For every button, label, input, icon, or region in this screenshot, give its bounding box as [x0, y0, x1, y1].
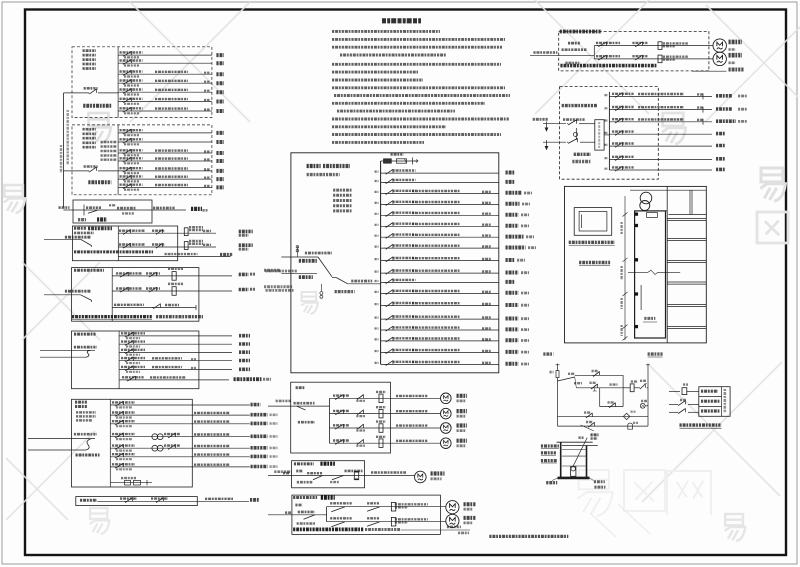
AT3 row 3 wire out and label: [199, 351, 232, 353]
pump panel feeder row 2: [594, 58, 713, 60]
A24 sewage motor 1: [446, 501, 459, 514]
panel A23 id: [296, 470, 303, 473]
panel AL2 incoming breaker: [84, 165, 98, 168]
AT2 row 2 outgoing wire: [199, 290, 232, 292]
B3AL feeder row 8: [381, 247, 499, 249]
panel AL3 parameters: [76, 411, 96, 414]
panel AT3 incoming: [74, 346, 97, 349]
B3AL feeder row 3: [381, 192, 499, 194]
A21 row 3 thermal relay: [379, 424, 383, 433]
panel AL2 parameter text: [101, 141, 117, 143]
ATS panel dashed box: [560, 87, 659, 180]
pit right wall: [586, 446, 588, 478]
panel AL2 divider: [117, 125, 119, 195]
panel AL2 feeder id labels: [83, 128, 97, 131]
AL2 feeder row 5 wire and breaker: [118, 170, 212, 172]
shaft bottom labels: [543, 352, 553, 355]
ATS label: [574, 153, 591, 156]
B3AL feeder row 17: [381, 352, 499, 354]
AL1 feeder row 2 load label: [216, 61, 224, 65]
ladder rung C wire: [558, 416, 649, 418]
panel AL1 incoming breaker: [84, 87, 98, 90]
B3AL feeder row 1: [381, 172, 499, 174]
A24 feeder row 1: [327, 506, 446, 508]
AL2 feeder row 3 load label: [216, 151, 224, 155]
pump panel dashed box: [559, 31, 709, 71]
AL2 feeder row 2 wire and breaker: [118, 141, 212, 143]
AL2 feeder row 4 load label: [216, 159, 224, 163]
AL2 feeder row 1 load label: [216, 131, 224, 135]
feeder box 3 cable spec: [153, 207, 175, 210]
AT3 bottom control row: [119, 379, 199, 381]
panel A24 incoming: [285, 511, 291, 514]
ladder knife switch: [557, 378, 559, 381]
panel AL3 divider: [109, 399, 111, 487]
A24 row 1 starter relay: [391, 502, 395, 511]
B3AL feeder row 9: [381, 260, 499, 262]
ATS feeder row 2: [609, 109, 712, 111]
branch B start button: [590, 387, 591, 389]
AL1 feeder row 2 wire and breaker: [118, 62, 212, 64]
panel A23 contactor contact: [332, 476, 344, 480]
AL3 feeder row 2: [110, 414, 192, 416]
leader line to ladder: [581, 425, 594, 431]
ATS row 5 load label: [716, 144, 725, 148]
ladder left rail: [557, 381, 559, 426]
title text: [382, 18, 421, 23]
ATS row 2 load label: [716, 107, 732, 111]
B3AL row 14 load label: [506, 317, 519, 321]
pump panel incoming: [533, 51, 557, 54]
ATS feeder row 5: [609, 145, 712, 147]
AL3 row 1 load label: [251, 403, 261, 407]
B3AL feeder row 4: [381, 203, 499, 205]
panel AL3 changeover label: [76, 454, 100, 457]
B3AL incoming wire 1: [281, 256, 318, 258]
panel AT3 header: [74, 333, 96, 336]
B3AL row 10 load label: [506, 271, 519, 275]
AT2 feeder row 1: [112, 275, 199, 277]
AL3 row 4 kWh meter: [152, 434, 158, 440]
AT1 row 1 load label: [239, 230, 253, 234]
B3AL surge arrester on wire 1: [296, 246, 298, 258]
AL2 feeder row 6 wire and breaker: [118, 178, 212, 180]
floor slab line: [667, 259, 706, 261]
panel AP box: [76, 497, 198, 506]
B3AL row 5 load label: [506, 213, 519, 217]
panel AT2 incoming: [65, 290, 91, 293]
panel A21 divider: [329, 398, 331, 443]
panel AP feeder wire: [97, 500, 249, 502]
control cabinet inner: [579, 212, 607, 232]
A23 cable spec: [371, 471, 406, 473]
panel AP load label: [250, 498, 259, 502]
panel A24 divider wire: [326, 507, 328, 522]
pit left labels: [541, 444, 559, 447]
B3AL row 3 load label: [506, 191, 522, 195]
AT2 row3 control wire: [112, 307, 196, 309]
panel AL1 divider: [117, 47, 119, 118]
pump panel feeder row 1: [594, 45, 713, 47]
panel A24 title: [293, 496, 317, 499]
panel AT1 box: [72, 226, 177, 261]
ATS row 1 load label: [716, 94, 732, 98]
AL2 feeder row 5 load label: [216, 169, 224, 173]
pit cover line: [557, 441, 593, 443]
floor slab line: [667, 281, 706, 283]
AT1 row 2 load label: [239, 243, 253, 247]
AL3 bottom metering row: [110, 482, 152, 484]
panel A24 id: [295, 504, 302, 507]
ATS feeder row 1: [609, 95, 712, 97]
shaft depth dim: [644, 317, 655, 320]
ladder right rail: [647, 364, 649, 427]
pump panel row 1 starter: [658, 42, 662, 50]
AL2 feeder row 1 wire and breaker: [118, 132, 212, 134]
pump panel title: [560, 30, 602, 34]
A21 feeder row 4: [330, 442, 391, 444]
AL1 feeder row 5 load label: [216, 90, 224, 94]
rung D alarm bell: [628, 423, 633, 429]
water level break line: [628, 271, 648, 273]
AL3 feeder row 1: [110, 404, 192, 406]
panel AT2 divider: [111, 268, 113, 322]
B3AL top fuse row: [381, 160, 418, 162]
ATS row 7 load label: [716, 168, 725, 172]
AL3 feeder row 4: [110, 436, 192, 438]
watermark diagonal lines: [130, 2, 250, 122]
water level control table: [699, 387, 730, 417]
pit bottom: [558, 477, 590, 480]
A21 feeder row 3: [330, 427, 391, 429]
traction pulley circles: [640, 192, 652, 204]
bottom note line: [489, 535, 568, 538]
panel AT3 box: [72, 331, 199, 389]
ATS row 6 load label: [716, 157, 725, 161]
panel A23 feeder wire: [268, 475, 415, 477]
panel B3AL parameters: [333, 189, 352, 192]
ATS feeder row 4: [609, 133, 712, 135]
shaft outer wall: [565, 186, 707, 343]
ATS incoming feeders: [533, 118, 548, 121]
ATS changeover switch: [595, 120, 604, 150]
pump panel outgoing tail: [708, 70, 710, 72]
A21 row 4 motor wire: [391, 442, 441, 444]
panel A23 soft starter: [345, 470, 363, 473]
B3AL row 6 load label: [506, 224, 519, 228]
KM self hold loop: [600, 387, 623, 389]
A21 fan motor M3: [441, 423, 452, 434]
B3AL feeder row 12: [381, 292, 499, 294]
ATS row 3 load label: [716, 119, 736, 123]
AL2 feeder row 4 wire and breaker: [118, 160, 212, 162]
AL1 feeder row 7 load label: [216, 109, 224, 113]
panel A23 title: [294, 462, 314, 465]
A21 feeder row 2: [330, 413, 391, 415]
AL1 feeder row 1 wire and breaker: [118, 54, 212, 56]
B3AL row 13 load label: [506, 303, 519, 307]
ladder branch B wire: [575, 376, 577, 388]
B3AL row 4 load label: [506, 202, 520, 206]
AL2 feeder row 3 wire and breaker: [118, 152, 212, 154]
run lamp HL: [640, 403, 645, 408]
A21 fan motor M2: [441, 408, 452, 419]
AL1 feeder row 4 wire and breaker: [118, 82, 212, 84]
ATS panel title: [562, 104, 598, 107]
pit left wall: [560, 442, 562, 478]
feeder box 3 divider tick: [83, 205, 85, 216]
feeder box 3 breaker: [86, 206, 101, 209]
B3AL feeder row 5: [381, 214, 499, 216]
A21 feeder row 1: [330, 397, 391, 399]
AT1 spare wire: [118, 256, 230, 258]
panel AP label: [80, 499, 97, 502]
B3AL row 2 load label: [506, 180, 515, 184]
ATS row 4 load label: [716, 132, 725, 136]
AL3 row 1 outgoing wire: [192, 404, 250, 406]
AT2 row 2 load label: [239, 288, 249, 292]
panel AT1 incoming wire: [65, 236, 91, 239]
pump panel row 2 starter: [658, 55, 662, 63]
AL3 row 7 load label: [251, 465, 268, 469]
panel A21 incoming: [294, 402, 315, 405]
rung C lamp diamond: [623, 413, 629, 419]
A24 bottom note: [293, 528, 364, 532]
ATS feeder row 3: [609, 121, 712, 123]
A21 row 3 motor wire: [391, 427, 441, 429]
B3AL grounding tap: [320, 284, 322, 292]
panel AT1 header labels: [74, 227, 86, 230]
B3AL row 17 load label: [506, 350, 519, 354]
B3AL row 18 load label: [506, 362, 519, 366]
B3AL feeder row 6: [381, 225, 499, 227]
rung C KM aux contact: [585, 416, 586, 418]
panel A23 incoming label: [283, 472, 290, 475]
panel A24 box: [292, 495, 441, 534]
machine room floor: [635, 210, 668, 212]
A21 fan motor M4: [441, 438, 452, 449]
panel AT2 box: [72, 268, 199, 322]
AT2 row 2 relay: [172, 287, 176, 296]
pump cable: [573, 438, 587, 466]
panel AL3 incoming wires: [74, 433, 97, 436]
AT3 row 4 wire out and label: [199, 360, 232, 362]
AT2 row 1 relay: [172, 272, 176, 281]
A24 feeder row 2: [327, 521, 446, 523]
A24 row 2 starter relay: [391, 517, 395, 526]
watermark large text bottom: [578, 470, 613, 516]
panel AT2 note text: [72, 315, 152, 318]
A24 aux contact wire: [401, 529, 470, 531]
float contact row2: [669, 403, 677, 405]
shaft label 2: [579, 261, 610, 264]
B3AL feeder row 18: [381, 363, 499, 365]
AL1 feeder row 4 load label: [216, 81, 224, 85]
floor slab line: [667, 217, 706, 219]
AL3 feeder row 7: [110, 466, 192, 468]
AL3 row 5 kWh meter: [152, 445, 158, 451]
AL2 feeder row 7 wire and breaker: [118, 186, 212, 188]
ATS incoming breakers: [563, 118, 585, 121]
B3AL feeder row 16: [381, 340, 499, 342]
A21 row 1 thermal relay: [379, 394, 383, 403]
AT2 row 1 outgoing wire: [199, 275, 232, 277]
floor slab line: [667, 304, 706, 306]
AL1 feeder row 3 load label: [216, 72, 224, 76]
AL3 row 7 outgoing wire: [192, 466, 250, 468]
feeder box 3 wire: [64, 209, 187, 211]
AL1 feeder row 5 wire and breaker: [118, 91, 212, 93]
ladder supply fuse FU: [557, 364, 559, 371]
AL3 row 3 load label: [251, 422, 268, 426]
AL3 row 6 load label: [251, 455, 268, 459]
rung D contact: [587, 425, 588, 427]
panel AT1 divider: [117, 226, 119, 261]
AL1 feeder row 1 load label: [216, 53, 224, 57]
B3AL row 8 load label: [506, 246, 526, 250]
B3AL row 12 load label: [506, 291, 519, 295]
AT3 feeder row 4: [119, 360, 199, 362]
wire riser from substation: [63, 93, 65, 207]
ATS feeder row 7: [609, 169, 712, 171]
AT1 feeder row 1: [118, 232, 177, 234]
junction boxes on shaft wall: [635, 213, 638, 216]
floor slab line: [667, 325, 706, 327]
A21 row 2 thermal relay: [379, 409, 383, 418]
panel AT2 header: [74, 269, 104, 272]
AL3 row 3 outgoing wire: [192, 423, 250, 425]
panel AL3 header: [75, 401, 87, 404]
AL3 row 5 load label: [251, 446, 268, 450]
AT3 feeder row 3: [119, 351, 199, 353]
hoistway rect: [635, 211, 666, 338]
AL1 feeder row 7 wire and breaker: [118, 110, 212, 112]
B3AL feeder row 7: [381, 236, 499, 238]
B3AL incoming wire 2: [281, 272, 317, 274]
B3AL row 7 load label: [506, 235, 524, 239]
B3AL row 15 load label: [506, 327, 519, 331]
B3AL feeder row 10: [381, 272, 499, 274]
AL1 feeder row 6 load label: [216, 100, 224, 104]
panel AL1 dashed box: [72, 47, 212, 118]
panel A21 box: [291, 382, 391, 453]
AL3 feeder row 6: [110, 456, 192, 458]
panel AL2 dashed box: [72, 125, 212, 195]
pump sewage motor M2: [713, 52, 726, 65]
AT2 row 1 load label: [239, 273, 249, 277]
AL2 feeder row 6 load label: [216, 177, 224, 181]
pit bottom-right label: [594, 480, 605, 483]
A24 sewage motor 2: [446, 514, 459, 527]
float ball label: [579, 436, 584, 439]
AT2 feeder row 2: [112, 290, 199, 292]
floor slab line: [667, 238, 706, 240]
AL3 feeder row 3: [110, 423, 192, 425]
A23 oil pump motor: [415, 471, 427, 483]
A21 row 2 motor wire: [391, 413, 441, 415]
B3AL feeder row 15: [381, 329, 499, 331]
AT3 row 2 wire out and label: [199, 343, 232, 345]
AL3 row 5 outgoing wire: [192, 447, 250, 449]
B3AL row 11 load label: [506, 280, 515, 284]
AT3 row 1 wire out and label: [199, 335, 232, 337]
AT3 row 5 wire out and label: [199, 369, 232, 371]
notes paragraph: [332, 30, 440, 33]
AT3 feeder row 1: [119, 335, 199, 337]
thermal overload NC contact FR: [634, 387, 639, 389]
B3AL incoming breaker: [336, 278, 347, 284]
car top box: [647, 213, 658, 218]
pump panel control note: [560, 64, 656, 68]
B3AL main bus: [380, 161, 382, 364]
AL3 row 4 load label: [251, 434, 268, 438]
AL3 row 6 outgoing wire: [192, 456, 250, 458]
shaft right floor slabs divider: [666, 186, 668, 343]
AL2 feeder row 2 load label: [216, 140, 224, 144]
pump sewage motor M1: [713, 39, 726, 52]
panel AL3 box: [72, 399, 193, 487]
AT3 feeder row 2: [119, 343, 199, 345]
AL3 row 4 outgoing wire: [192, 436, 250, 438]
watermark glyphs small: [88, 113, 111, 143]
AL3 row 2 outgoing wire: [192, 414, 250, 416]
panel A23 box: [292, 461, 365, 488]
B3AL row 1 load label: [506, 171, 515, 175]
AL1 feeder row 3 wire and breaker: [118, 73, 212, 75]
feeder box 3 incoming label: [59, 206, 70, 209]
pump panel id labels: [568, 42, 580, 45]
panel AT1 note text: [74, 250, 153, 253]
ladder branch A wire: [575, 374, 623, 376]
pit bottom-left label: [546, 481, 557, 484]
panel AL2 name label: [88, 180, 111, 184]
feeder box 3 name label: [78, 218, 86, 221]
pit water lines: [562, 449, 586, 451]
panel A21 name: [296, 386, 305, 389]
panel AL1 name label: [83, 104, 111, 108]
contactor coil KM: [623, 387, 630, 389]
AL2 feeder row 7 load label: [216, 185, 224, 189]
A21 row 4 thermal relay: [379, 439, 383, 448]
panel A23 breaker: [307, 472, 322, 474]
panel AT3 divider: [118, 331, 120, 389]
shaft dimension line: [624, 196, 626, 340]
submersible pump: [571, 467, 576, 477]
float switch contact P: [669, 391, 680, 393]
AT1 row 2 surge protector: [178, 246, 216, 248]
A21 row 1 motor wire: [391, 397, 441, 399]
feeder box 3 load label: [191, 207, 202, 211]
AL3 feeder row 5: [110, 447, 192, 449]
AT1 feeder row 2: [118, 246, 177, 248]
branch A stop contact: [592, 374, 593, 376]
panel B3AL name: [307, 164, 321, 168]
panel B3AL box: [291, 153, 499, 373]
control cabinet outer: [574, 208, 612, 236]
B3AL feeder row 11: [381, 282, 499, 284]
A21 fan motor M1: [441, 393, 452, 404]
AT1 row 1 surge protector: [178, 232, 216, 234]
pump panel PE wire: [692, 70, 727, 72]
B3AL feeder row 13: [381, 305, 499, 307]
AL1 feeder row 6 wire and breaker: [118, 101, 212, 103]
feeder box 3: [73, 200, 152, 223]
cabinet label: [569, 241, 615, 244]
ATS bus: [608, 92, 610, 170]
AT3 feeder row 5: [119, 369, 199, 371]
table caption: [680, 423, 722, 426]
B3AL changeover switch: [318, 257, 332, 277]
